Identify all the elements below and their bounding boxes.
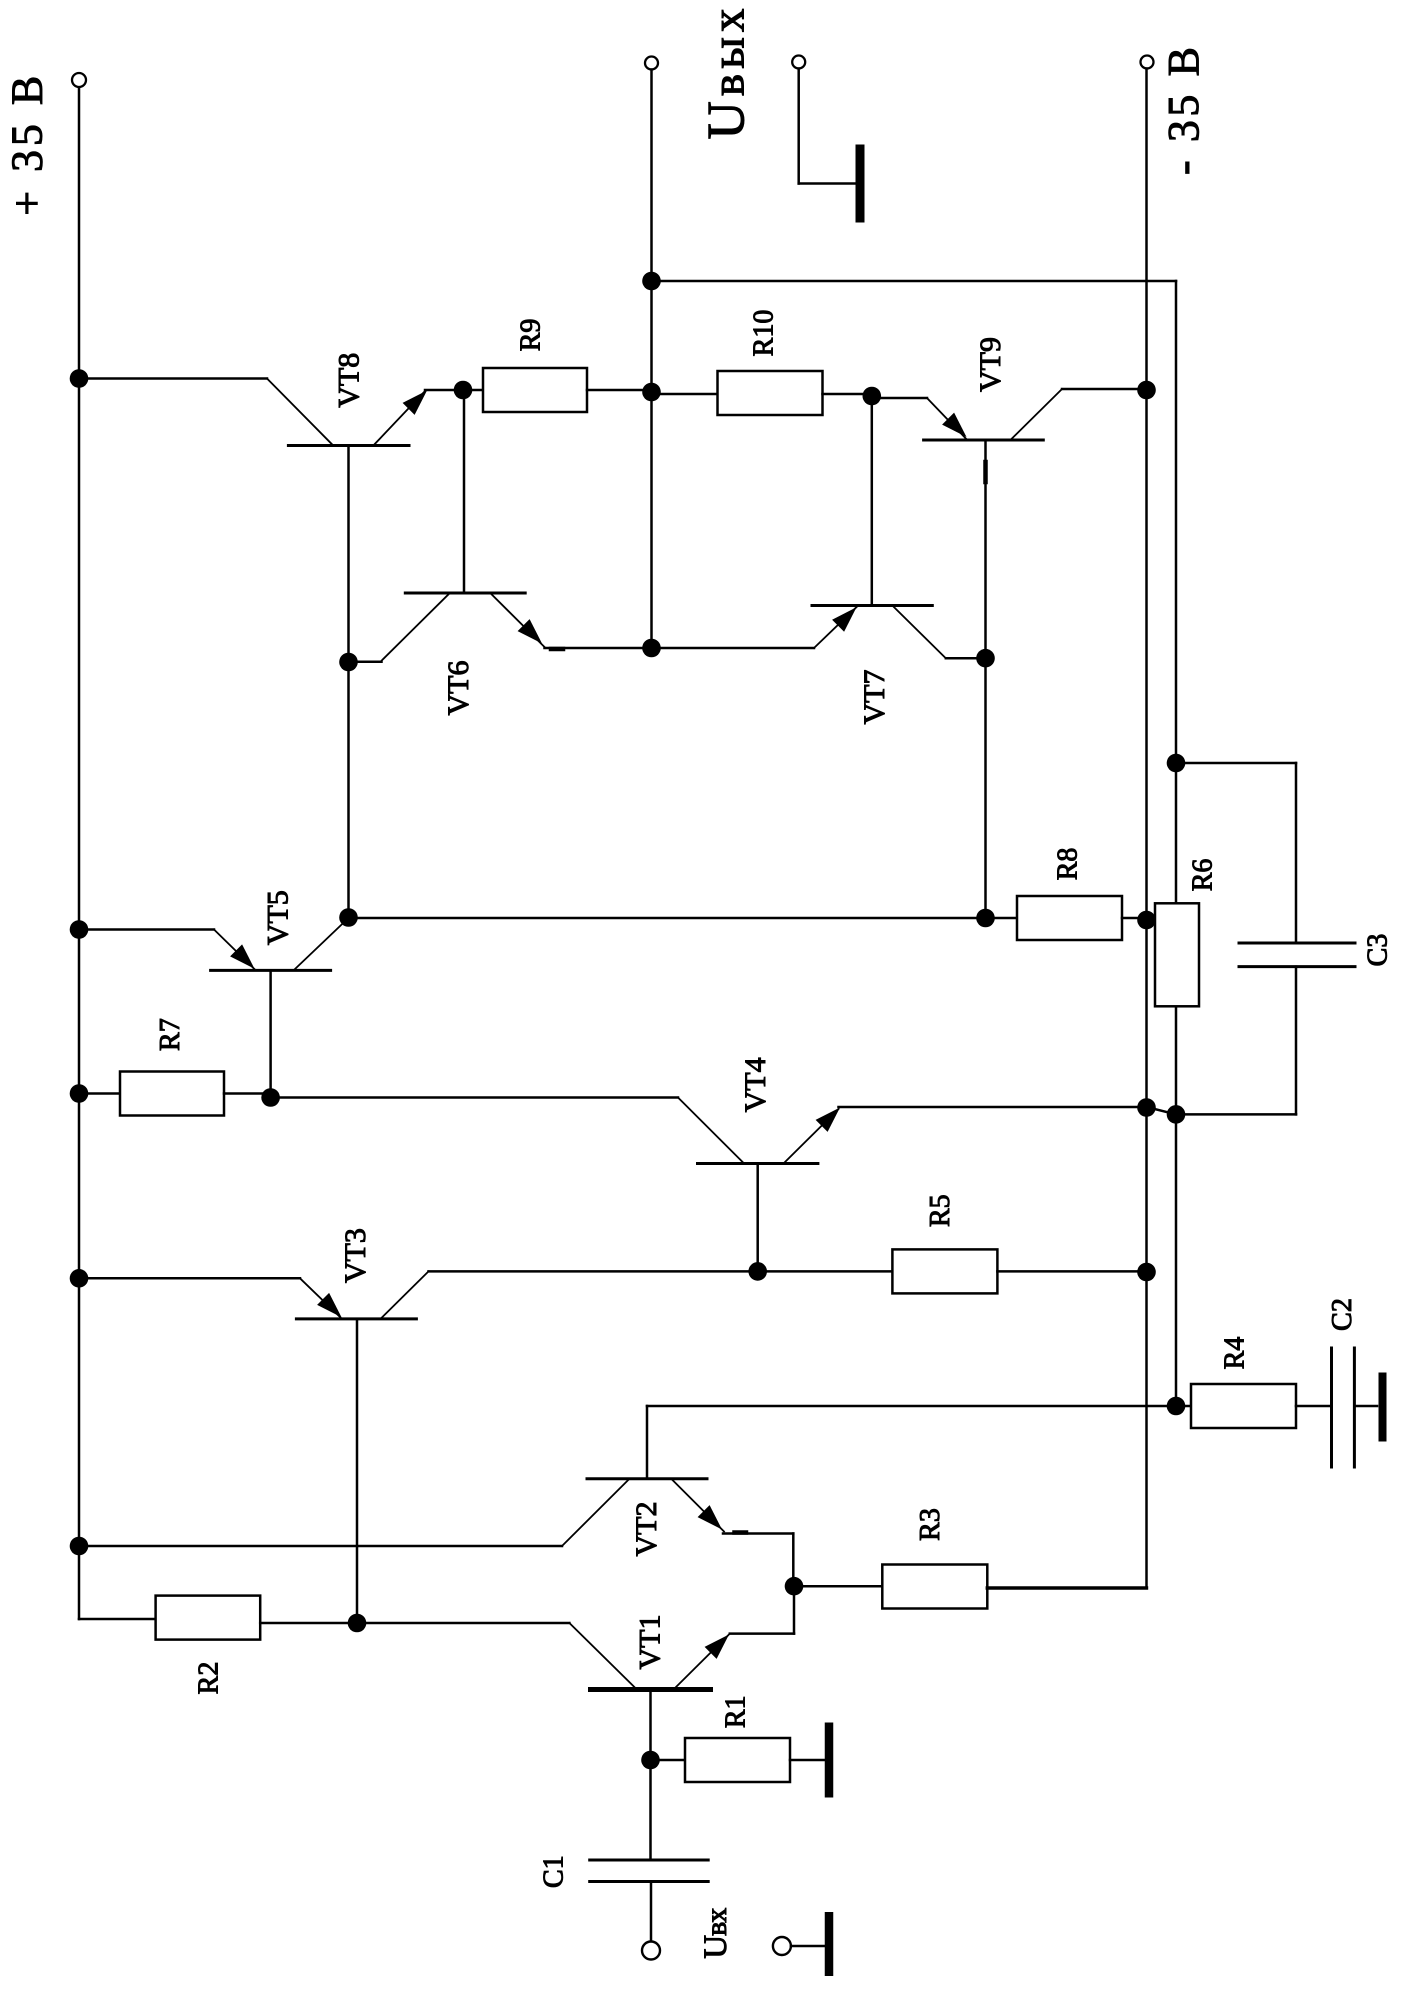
svg-text:VT4: VT4 [739,1057,772,1112]
svg-text:R2: R2 [194,1662,225,1695]
svg-text:VT6: VT6 [442,661,475,716]
svg-text:Uвых: Uвых [697,9,755,140]
svg-text:VT9: VT9 [974,337,1007,392]
svg-text:VT3: VT3 [339,1228,372,1283]
svg-text:R9: R9 [516,319,547,352]
svg-text:R8: R8 [1052,848,1083,881]
svg-text:R5: R5 [925,1194,956,1227]
svg-text:+ 35 В: + 35 В [2,76,51,216]
svg-text:R10: R10 [748,310,779,357]
svg-text:C3: C3 [1362,934,1393,967]
svg-text:R6: R6 [1187,859,1218,892]
svg-text:VT7: VT7 [858,670,891,725]
svg-text:VT1: VT1 [633,1615,666,1670]
svg-text:R7: R7 [155,1018,186,1051]
svg-text:R3: R3 [915,1508,946,1541]
svg-text:VT8: VT8 [333,353,366,408]
svg-text:Uвх: Uвх [698,1908,734,1959]
svg-text:R4: R4 [1220,1337,1251,1370]
svg-text:C1: C1 [538,1855,569,1888]
svg-text:R1: R1 [721,1695,752,1728]
svg-text:VT2: VT2 [630,1502,663,1557]
svg-text:VT5: VT5 [262,890,295,945]
svg-text:C2: C2 [1327,1298,1358,1331]
svg-text:- 35 В: - 35 В [1159,47,1208,175]
